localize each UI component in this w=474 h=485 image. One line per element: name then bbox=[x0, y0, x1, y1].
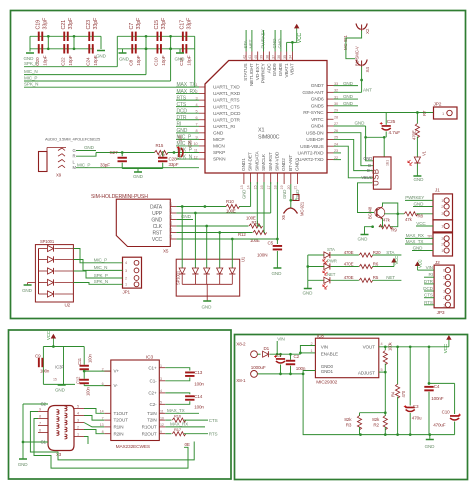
svg-text:1: 1 bbox=[196, 83, 198, 87]
resistor R2 82k bbox=[384, 413, 386, 416]
svg-text:MIC_N: MIC_N bbox=[94, 265, 108, 270]
pin 37 GND9 bbox=[274, 52, 276, 61]
pin 8 R2IN bbox=[104, 433, 111, 435]
svg-text:GND1: GND1 bbox=[321, 369, 334, 374]
connector JP1 bbox=[123, 257, 142, 288]
svg-text:U2: U2 bbox=[65, 303, 71, 308]
svg-text:GND: GND bbox=[343, 81, 354, 86]
svg-text:SPKN: SPKN bbox=[213, 157, 226, 163]
capacitor C21 33pF bbox=[63, 32, 68, 41]
svg-text:4.7uF: 4.7uF bbox=[389, 130, 401, 136]
svg-text:5: 5 bbox=[196, 109, 198, 113]
svg-text:1: 1 bbox=[311, 349, 313, 353]
wire collector to R8 bbox=[383, 203, 398, 214]
svg-text:GND5: GND5 bbox=[311, 103, 324, 109]
bottom bus junction dots bbox=[359, 433, 362, 436]
svg-text:V1: V1 bbox=[421, 150, 426, 156]
ground C5 bbox=[273, 267, 281, 269]
svg-text:C4: C4 bbox=[169, 221, 173, 225]
pin 13 R1IN bbox=[104, 426, 111, 428]
ground bank B left bbox=[122, 49, 124, 53]
svg-text:X9: X9 bbox=[56, 173, 62, 178]
svg-text:C2+: C2+ bbox=[148, 391, 157, 396]
svg-text:VCC: VCC bbox=[46, 331, 51, 340]
svg-text:C3: C3 bbox=[413, 404, 419, 409]
resistor R4 470 bbox=[397, 347, 399, 385]
svg-text:C10: C10 bbox=[154, 57, 160, 66]
ground audio filter bbox=[134, 171, 142, 173]
svg-text:GND: GND bbox=[213, 130, 224, 136]
svg-text:MICP: MICP bbox=[213, 137, 224, 143]
svg-text:MC-921: MC-921 bbox=[343, 35, 348, 50]
node GND at J1 bbox=[413, 206, 433, 208]
svg-text:C28: C28 bbox=[169, 157, 178, 162]
pin 19 GND2 bbox=[283, 173, 285, 184]
svg-text:T2OUT: T2OUT bbox=[114, 418, 129, 423]
connector USB bbox=[373, 157, 391, 189]
svg-text:VCC: VCC bbox=[416, 221, 426, 226]
pin 10 T2IN bbox=[159, 419, 165, 421]
ground output bbox=[429, 435, 431, 439]
pin 7 T2OUT bbox=[104, 419, 111, 421]
svg-text:R2IN: R2IN bbox=[114, 431, 124, 436]
wire bank A rails bbox=[30, 35, 101, 37]
svg-text:GND: GND bbox=[363, 156, 372, 161]
pin 27 GND4 bbox=[327, 125, 334, 127]
connector X3 DB9 bbox=[48, 406, 74, 451]
svg-text:C9: C9 bbox=[35, 354, 41, 359]
wire DB9 pin4 to T2OUT bbox=[84, 416, 104, 421]
node GND at jack bbox=[76, 150, 96, 152]
wire G1 tie bbox=[23, 441, 48, 443]
wire C25 node to USB GND bbox=[383, 137, 385, 157]
wire DB9 pin1 stub bbox=[84, 437, 88, 445]
svg-text:R1OUT: R1OUT bbox=[142, 425, 157, 430]
wire RF-SYNC to JP2 bbox=[334, 112, 434, 114]
svg-text:STATUS: STATUS bbox=[243, 64, 249, 81]
svg-text:MAX_RX: MAX_RX bbox=[170, 422, 188, 427]
svg-text:GND: GND bbox=[18, 462, 29, 467]
svg-text:GND: GND bbox=[119, 57, 130, 62]
wire SIM CLK / R11 bbox=[176, 225, 248, 227]
svg-text:RTS: RTS bbox=[424, 300, 433, 305]
svg-text:37: 37 bbox=[271, 55, 275, 59]
svg-text:UART1_TXD: UART1_TXD bbox=[213, 85, 240, 91]
wire U1 input 1 bbox=[181, 207, 183, 269]
svg-text:8: 8 bbox=[39, 415, 41, 419]
wire USB-DP route bbox=[334, 139, 374, 170]
capacitor C16 10pF bbox=[182, 44, 187, 53]
svg-text:TP8: TP8 bbox=[427, 234, 433, 238]
ground bank A left bbox=[26, 52, 34, 54]
svg-text:C15: C15 bbox=[154, 20, 160, 30]
capacitor C1 1000uF bbox=[280, 354, 282, 357]
svg-text:R15: R15 bbox=[156, 143, 164, 148]
diode D1 bbox=[263, 351, 269, 357]
svg-text:82k: 82k bbox=[344, 417, 352, 422]
svg-text:0E: 0E bbox=[185, 442, 190, 447]
svg-text:5: 5 bbox=[381, 368, 383, 372]
svg-text:MIC_P: MIC_P bbox=[94, 258, 107, 263]
pin 9 MICP bbox=[199, 138, 205, 140]
pin 15 SIMDATA bbox=[256, 173, 258, 184]
svg-text:R8: R8 bbox=[418, 214, 424, 219]
svg-text:C17: C17 bbox=[179, 20, 185, 30]
antenna connector X2 bbox=[356, 24, 367, 32]
wire LED ground bus bbox=[307, 255, 309, 280]
svg-text:GND3: GND3 bbox=[295, 158, 301, 171]
pin 39 PWRKEY bbox=[263, 52, 265, 61]
svg-text:ANT: ANT bbox=[363, 88, 372, 93]
svg-text:MIC29302: MIC29302 bbox=[316, 380, 337, 386]
pin 25 USB-DP bbox=[327, 138, 334, 140]
svg-text:33pF: 33pF bbox=[186, 17, 192, 30]
pin 28 VRTC bbox=[327, 118, 334, 120]
capacitor C19 33pF bbox=[38, 32, 43, 41]
antenna connector X4 bbox=[356, 60, 367, 68]
svg-text:VBAT: VBAT bbox=[290, 63, 296, 75]
svg-text:GND4: GND4 bbox=[311, 124, 324, 130]
resistor R10 100E bbox=[226, 204, 240, 208]
svg-text:CTS: CTS bbox=[424, 293, 433, 298]
IC8 MIC29302 body bbox=[315, 338, 378, 378]
svg-text:13: 13 bbox=[240, 185, 244, 189]
frame bottom-right section bbox=[235, 335, 468, 480]
diode D9 in U2 bbox=[38, 249, 40, 295]
wire DB9 pin5 to T1OUT bbox=[84, 409, 104, 414]
wire VCC loop bbox=[43, 346, 84, 348]
pin 42 STATUS bbox=[245, 52, 247, 61]
svg-text:15: 15 bbox=[253, 185, 257, 189]
svg-text:GND: GND bbox=[55, 388, 66, 393]
svg-text:IC3: IC3 bbox=[146, 355, 153, 361]
svg-text:4: 4 bbox=[77, 412, 79, 416]
node VIN at JP3 bbox=[424, 269, 434, 271]
svg-text:18: 18 bbox=[274, 185, 278, 189]
svg-text:SIMCLK: SIMCLK bbox=[261, 153, 267, 171]
svg-text:JP3: JP3 bbox=[437, 310, 445, 316]
capacitor C23 33pF bbox=[88, 32, 93, 41]
svg-text:ADJUST: ADJUST bbox=[358, 371, 375, 376]
svg-text:R6: R6 bbox=[373, 261, 379, 266]
ground under LED bbox=[416, 164, 418, 176]
svg-text:SIM-VDD: SIM-VDD bbox=[275, 151, 281, 171]
node MAX_TX at J1 bbox=[405, 243, 433, 245]
svg-text:USB-DP: USB-DP bbox=[306, 137, 323, 143]
pin 11 T1IN bbox=[159, 412, 165, 414]
pin 4 C2+ bbox=[159, 392, 165, 394]
svg-text:VCC: VCC bbox=[418, 259, 423, 268]
svg-text:33pF: 33pF bbox=[68, 17, 74, 30]
resistor R7 470E bbox=[416, 113, 418, 124]
svg-text:C12: C12 bbox=[75, 376, 80, 384]
svg-text:SP1001: SP1001 bbox=[40, 239, 55, 244]
svg-text:100nF: 100nF bbox=[431, 396, 444, 401]
svg-text:C6: C6 bbox=[169, 208, 173, 212]
pin 20 BT-ANT bbox=[290, 173, 292, 184]
svg-text:39: 39 bbox=[260, 55, 264, 59]
svg-text:C25: C25 bbox=[387, 119, 396, 125]
svg-text:C1-: C1- bbox=[150, 378, 158, 383]
diode D5 in U1 bbox=[217, 268, 223, 274]
svg-text:X5: X5 bbox=[163, 249, 169, 254]
svg-text:R2: R2 bbox=[373, 423, 379, 428]
pin 13 GND1 bbox=[243, 173, 245, 184]
svg-text:C21: C21 bbox=[61, 20, 67, 30]
wire X2 to X4 feed bbox=[346, 31, 362, 59]
wire DB9 pin3 to R1IN bbox=[84, 423, 104, 427]
svg-text:C10: C10 bbox=[442, 410, 451, 415]
pin 14 SIM-DET bbox=[250, 173, 252, 184]
wire ADJUST bbox=[379, 371, 386, 373]
wire U1 input 3 bbox=[206, 226, 208, 268]
wire SIM RST / R12 bbox=[176, 232, 252, 234]
svg-text:C27: C27 bbox=[110, 150, 119, 155]
svg-text:RTS: RTS bbox=[177, 95, 187, 101]
svg-text:100k: 100k bbox=[388, 341, 393, 351]
wire DB9 left loop bbox=[30, 412, 194, 460]
pin 35 VBAT1 bbox=[286, 52, 288, 61]
pin 6 X3 bbox=[38, 432, 48, 434]
svg-text:28: 28 bbox=[334, 115, 338, 119]
svg-text:CLK: CLK bbox=[153, 224, 163, 230]
svg-text:NET: NET bbox=[327, 272, 336, 277]
svg-text:34: 34 bbox=[289, 55, 293, 59]
svg-text:ADC: ADC bbox=[266, 63, 272, 73]
svg-text:C1+: C1+ bbox=[148, 365, 157, 370]
wire USB-DN route bbox=[334, 133, 374, 166]
node VCC supply at VBAT bbox=[286, 42, 288, 51]
pin 2 V+ bbox=[104, 370, 111, 372]
svg-text:10: 10 bbox=[194, 142, 198, 146]
svg-text:IC3P: IC3P bbox=[55, 365, 64, 370]
svg-text:19: 19 bbox=[280, 185, 284, 189]
svg-text:21: 21 bbox=[294, 185, 298, 189]
capacitor C11 100n bbox=[83, 347, 85, 365]
svg-text:33pF: 33pF bbox=[42, 17, 48, 30]
LED V1 bbox=[416, 137, 418, 158]
resistor R8 47k bbox=[384, 213, 404, 215]
diode D11 in U2 bbox=[38, 249, 40, 295]
svg-text:2: 2 bbox=[102, 367, 104, 371]
pin 14 T1OUT bbox=[104, 412, 111, 414]
capacitor C4 100nF bbox=[428, 347, 430, 385]
resistor R3 82k bbox=[359, 413, 361, 416]
wire SIM VCC bbox=[176, 238, 277, 240]
node MIC_P harness bbox=[24, 80, 171, 82]
node RI at JP3 bbox=[424, 276, 434, 278]
svg-text:D1: D1 bbox=[264, 346, 270, 351]
svg-text:UPP: UPP bbox=[152, 211, 163, 217]
node GND at J1 pin1 bbox=[412, 250, 433, 252]
svg-text:1: 1 bbox=[160, 364, 162, 368]
svg-text:1000uF: 1000uF bbox=[251, 365, 266, 370]
pin 1 C1+ bbox=[159, 367, 165, 369]
svg-text:VIN: VIN bbox=[321, 345, 328, 350]
svg-text:SIM800C: SIM800C bbox=[258, 135, 280, 141]
RF connector X6 MC-921 bbox=[290, 184, 292, 209]
svg-text:R2OUT: R2OUT bbox=[142, 431, 157, 436]
capacitor C28 33pF bbox=[162, 151, 164, 156]
diode array U2 SP1001 bbox=[35, 245, 73, 302]
svg-text:470E: 470E bbox=[344, 250, 354, 255]
svg-text:R17: R17 bbox=[174, 427, 182, 432]
svg-text:GND: GND bbox=[177, 128, 188, 134]
svg-text:X3: X3 bbox=[56, 452, 62, 457]
svg-text:VBUS: VBUS bbox=[361, 175, 372, 180]
pin 18 SIM-VDD bbox=[276, 173, 278, 184]
svg-text:T2IN: T2IN bbox=[147, 418, 156, 423]
svg-text:MAX_TX: MAX_TX bbox=[406, 239, 424, 244]
LED NET bbox=[308, 279, 325, 281]
svg-text:GND: GND bbox=[414, 177, 425, 182]
pin 33 GND7 bbox=[327, 85, 334, 87]
pin 9 X3 bbox=[38, 411, 48, 413]
diode D7 in U2 bbox=[38, 249, 40, 295]
svg-text:1: 1 bbox=[77, 433, 79, 437]
svg-text:3: 3 bbox=[196, 96, 198, 100]
pin 30 GND5 bbox=[327, 105, 334, 107]
diode D2 in U1 bbox=[179, 268, 185, 274]
svg-text:GND: GND bbox=[413, 245, 424, 250]
pin 26 USB-DN bbox=[327, 132, 334, 134]
svg-text:SIM-DET: SIM-DET bbox=[248, 152, 254, 171]
pin 34 VBAT bbox=[292, 52, 294, 61]
node MIC_P at jack bbox=[76, 167, 199, 169]
pin 3 X3 bbox=[74, 422, 84, 424]
svg-text:2: 2 bbox=[125, 276, 127, 280]
node MAX_TX at T1IN bbox=[165, 412, 199, 414]
pin 22 UART2-TXD bbox=[327, 159, 334, 161]
pin 12 R1OUT bbox=[159, 426, 165, 428]
wire R2 R3 top bus bbox=[360, 412, 386, 414]
svg-text:RST: RST bbox=[152, 230, 162, 236]
svg-text:7: 7 bbox=[39, 422, 41, 426]
pin 5 C2- bbox=[159, 403, 165, 405]
svg-text:15: 15 bbox=[53, 378, 57, 382]
svg-text:GND: GND bbox=[202, 305, 213, 310]
wire U1 input 4 bbox=[219, 233, 221, 269]
ground bank B right bbox=[179, 49, 181, 53]
wire G2 to ground bbox=[23, 403, 48, 405]
wire U2 to JP1 SPK_N bbox=[73, 283, 122, 285]
node VCC output bbox=[447, 336, 451, 347]
svg-text:470E: 470E bbox=[344, 261, 354, 266]
svg-text:6: 6 bbox=[196, 116, 198, 120]
wire C10 branch bbox=[429, 382, 455, 384]
pin 2 UART1_RXD bbox=[199, 93, 205, 95]
svg-text:20: 20 bbox=[287, 185, 291, 189]
svg-text:10pF: 10pF bbox=[186, 55, 192, 66]
svg-text:C4: C4 bbox=[434, 384, 440, 389]
capacitor C17 33pF bbox=[182, 32, 187, 41]
node SPK_P harness bbox=[24, 66, 117, 68]
svg-text:GND: GND bbox=[133, 174, 144, 179]
svg-text:DTR: DTR bbox=[177, 115, 187, 121]
svg-text:100n: 100n bbox=[88, 353, 93, 363]
resistor R15 10E bbox=[155, 150, 169, 154]
svg-text:1: 1 bbox=[125, 283, 127, 287]
node GND pin31 bbox=[334, 98, 359, 100]
diode D8 in U2 bbox=[38, 249, 40, 295]
node MAX_RX at R1OUT bbox=[165, 426, 205, 428]
pin 9 R2OUT bbox=[159, 433, 165, 435]
capacitor C2 100n bbox=[290, 354, 292, 360]
svg-text:C14: C14 bbox=[194, 394, 203, 399]
svg-text:4: 4 bbox=[125, 261, 127, 265]
svg-text:GND6: GND6 bbox=[311, 97, 324, 103]
svg-text:GND: GND bbox=[96, 54, 107, 59]
svg-text:35: 35 bbox=[283, 55, 287, 59]
pin 23 UART2-RXD bbox=[327, 152, 334, 154]
svg-text:3: 3 bbox=[77, 419, 79, 423]
pin jack M bbox=[58, 165, 65, 168]
svg-text:GND9: GND9 bbox=[272, 63, 278, 76]
node VOUT rail bbox=[379, 346, 449, 348]
svg-text:USB-VBUS: USB-VBUS bbox=[300, 144, 323, 150]
pin 4 X3 bbox=[74, 415, 84, 417]
wire U2 to JP1 SPK_P bbox=[73, 271, 122, 278]
svg-text:VCC: VCC bbox=[297, 32, 303, 43]
svg-text:47k: 47k bbox=[405, 217, 413, 222]
svg-text:42: 42 bbox=[242, 55, 246, 59]
node VCC at R6 bbox=[372, 266, 394, 268]
diode D6 in U1 bbox=[229, 268, 235, 274]
node RTS at JP3 bbox=[424, 304, 434, 306]
svg-text:GND1: GND1 bbox=[241, 158, 247, 171]
svg-text:MIC_N: MIC_N bbox=[24, 69, 38, 74]
svg-text:C5: C5 bbox=[169, 215, 173, 219]
wire U2 to JP1 MIC_N bbox=[73, 260, 122, 271]
svg-text:10pF: 10pF bbox=[136, 55, 142, 66]
svg-text:JP1: JP1 bbox=[123, 290, 131, 295]
svg-text:DTR: DTR bbox=[424, 279, 434, 284]
pin 6 UART1_DTR bbox=[199, 119, 205, 121]
svg-text:R1IN: R1IN bbox=[114, 425, 124, 430]
svg-text:17: 17 bbox=[267, 185, 271, 189]
svg-text:470: 470 bbox=[401, 390, 406, 397]
diode array U1 SP1001 bbox=[176, 259, 240, 296]
svg-text:MAX_RX: MAX_RX bbox=[177, 89, 197, 95]
pin 17 SIM-RST bbox=[270, 173, 272, 184]
svg-text:47k: 47k bbox=[383, 218, 391, 223]
svg-text:SPK_P: SPK_P bbox=[94, 273, 108, 278]
svg-text:C22: C22 bbox=[61, 57, 67, 66]
svg-text:BT-ANT: BT-ANT bbox=[288, 155, 294, 171]
svg-text:PWRKEY: PWRKEY bbox=[261, 63, 267, 84]
svg-text:GSM-ANT: GSM-ANT bbox=[302, 90, 323, 96]
svg-text:X6: X6 bbox=[281, 214, 286, 220]
wire base of Q1 bbox=[358, 183, 375, 213]
svg-text:VD-EXT: VD-EXT bbox=[255, 63, 261, 80]
wire U1 input 2 bbox=[194, 213, 196, 268]
node VCC bottom left bbox=[51, 335, 55, 347]
capacitor C22 10pF bbox=[63, 44, 68, 53]
svg-text:IC8: IC8 bbox=[317, 334, 324, 340]
capacitor C7 33pF bbox=[131, 32, 136, 41]
svg-text:4: 4 bbox=[196, 103, 198, 107]
svg-text:BU-SMC-V: BU-SMC-V bbox=[355, 46, 360, 66]
svg-text:UART2-TXD: UART2-TXD bbox=[298, 157, 324, 163]
svg-text:9: 9 bbox=[196, 136, 198, 140]
svg-text:X2: X2 bbox=[365, 28, 370, 34]
svg-text:SP1001: SP1001 bbox=[176, 270, 181, 285]
svg-text:10pF: 10pF bbox=[42, 55, 48, 66]
pin 40 VD-EXT bbox=[257, 52, 259, 61]
svg-text:41: 41 bbox=[248, 55, 252, 59]
svg-text:C3: C3 bbox=[169, 228, 173, 232]
svg-text:VCC: VCC bbox=[152, 237, 163, 243]
